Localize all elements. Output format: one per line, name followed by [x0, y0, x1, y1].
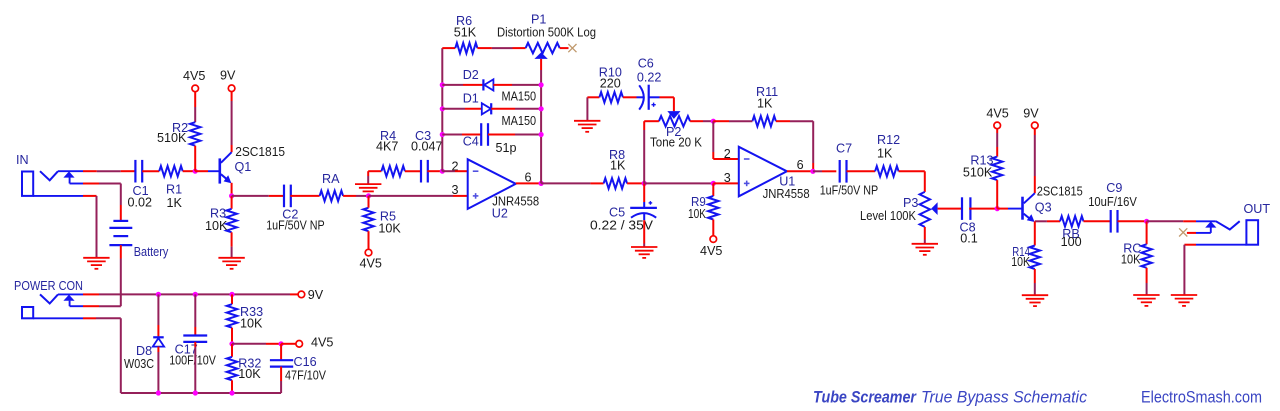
svg-text:4V5: 4V5 [311, 336, 333, 350]
resistor R6 (51K) [454, 14, 478, 53]
wire R2 to node A [194, 146, 196, 172]
capacitor C9 (10uF/16V) [1088, 181, 1137, 233]
svg-text:C16: C16 [294, 355, 317, 369]
resistor R4 (4K7) [376, 129, 405, 176]
wire C16 to bus [280, 367, 282, 393]
svg-text:1uF/50V NP: 1uF/50V NP [820, 184, 879, 198]
resistor RB (100) [1060, 216, 1084, 249]
wire node 4V5 to R32 [231, 344, 233, 357]
ground (C5) [631, 247, 657, 258]
wire P1 right to open end [560, 47, 569, 49]
wire R3 to ground [231, 232, 233, 257]
resistor R8 (1K) [604, 148, 628, 189]
svg-text:220: 220 [600, 77, 621, 91]
wire node B to R3 [231, 196, 233, 209]
svg-text:510K: 510K [157, 131, 187, 145]
svg-text:4V5: 4V5 [700, 244, 722, 258]
wire U2 out to node E [516, 182, 541, 184]
wire node J to Q3 base [997, 208, 1008, 210]
power connector J3 [22, 294, 83, 318]
wire 4V5 to R2 [194, 92, 196, 123]
transistor Q3 (2SC1815) [1008, 185, 1083, 223]
wire node G to R11 [713, 120, 752, 122]
junction node L (C9/RC/out) [1144, 219, 1149, 224]
wire bus to D2 [442, 84, 483, 86]
svg-text:6: 6 [797, 158, 804, 172]
svg-text:C9: C9 [1106, 181, 1122, 195]
wire node D to U2 pin2 [442, 170, 467, 172]
svg-text:C6: C6 [638, 56, 654, 70]
ground (R3) [218, 258, 244, 269]
wire Q3 emitter to RB [1035, 220, 1060, 222]
svg-text:10K: 10K [1121, 253, 1141, 267]
svg-text:510K: 510K [963, 166, 993, 180]
input jack J1 [22, 171, 83, 196]
wire right feedback bus [540, 85, 542, 183]
wire C3 to U2 pin2 node [427, 170, 442, 172]
svg-text:Q3: Q3 [1035, 201, 1052, 215]
svg-text:4V5: 4V5 [360, 257, 382, 271]
junction node J (R13/Q3 base) [995, 206, 1000, 211]
resistor R13 (510K) [963, 154, 1003, 181]
wire 4V5 rail [232, 343, 281, 345]
wire ground bus [121, 392, 281, 394]
junction node G (P2/R11/U1 pin2) [711, 119, 716, 124]
resistor R1 (1K) [159, 166, 183, 210]
svg-text:4V5: 4V5 [986, 107, 1008, 121]
svg-text:True Bypass Schematic: True Bypass Schematic [921, 388, 1088, 406]
svg-text:1K: 1K [877, 147, 893, 161]
wire bus to R6 [442, 47, 455, 49]
op-amp U1 (JNR4558) [739, 147, 810, 201]
wire C6 to P2 wiper [660, 97, 674, 111]
wire node F to U1 pin3 [644, 182, 713, 184]
wire C2 to RA [290, 195, 319, 197]
resistor R3 (10K) [205, 207, 237, 234]
junction bus at C17 [193, 390, 198, 395]
svg-text:Tube Screamer: Tube Screamer [813, 388, 917, 406]
svg-text:3: 3 [724, 171, 731, 185]
wire left feedback bus [441, 48, 443, 171]
wire 9V to D8 [157, 294, 159, 337]
resistor R33 (10K) [227, 304, 263, 330]
wire bus to D1 [442, 108, 482, 110]
wire bus to C4 [442, 134, 481, 136]
resistor RC (10K) [1121, 242, 1152, 268]
net 4V5 terminal (R2 top) [183, 69, 205, 92]
svg-text:IN: IN [16, 153, 29, 167]
wire 9V to Q3 collector [1034, 129, 1036, 194]
wire D1 to bus [491, 108, 541, 110]
title Tube Screamer True Bypass Schematic [813, 388, 1088, 406]
junction node E (U2 output) [539, 181, 544, 186]
wire C9 to node L [1118, 220, 1147, 222]
svg-text:POWER CON: POWER CON [14, 279, 83, 293]
wire node L to RC [1146, 221, 1148, 244]
wire C17 to bus [194, 342, 196, 393]
svg-text:P3: P3 [903, 196, 918, 210]
wire power middle to battery [83, 305, 121, 307]
diode D8 (W03C) [124, 337, 164, 371]
svg-text:Battery: Battery [134, 245, 169, 259]
wire Q1 emitter to node B [231, 183, 233, 196]
potentiometer P2 (Tone 20 K) [650, 111, 703, 149]
wire node E to R8 [541, 182, 604, 184]
junction right bus at D1 [539, 106, 544, 111]
net 4V5 terminal (R5) [360, 249, 382, 270]
wire R10 to C6 [623, 96, 637, 98]
svg-text:9V: 9V [220, 69, 236, 83]
svg-text:9V: 9V [308, 288, 324, 302]
capacitor C1 (0.02) [128, 160, 153, 210]
svg-text:10K: 10K [238, 367, 261, 381]
svg-text:2: 2 [724, 147, 731, 161]
battery BT1 [109, 221, 168, 259]
svg-text:4K7: 4K7 [376, 140, 398, 154]
svg-text:Level 100K: Level 100K [860, 209, 917, 223]
wire node I to C7 [813, 170, 836, 172]
wire node F up to P2 left [643, 121, 645, 183]
ground (P3) [912, 244, 938, 255]
ground (R4 left) [355, 184, 381, 191]
svg-text:D8: D8 [136, 344, 152, 358]
capacitor C17 (100F/10V) [169, 336, 216, 368]
capacitor C6 (0.22, polarized) [637, 56, 662, 109]
credit ElectroSmash.com [1141, 388, 1262, 407]
junction 9V rail at C17 [193, 292, 198, 297]
wire node C to U2 pin3 [369, 195, 468, 197]
svg-text:47F/10V: 47F/10V [285, 369, 327, 383]
no-connect cross (OUT) [1179, 228, 1187, 236]
resistor R10 (220) [599, 66, 623, 103]
resistor R14 (10K) [1011, 245, 1040, 269]
junction node F (R8/C5/P2) [642, 181, 647, 186]
junction 9V rail at D8 [156, 292, 161, 297]
wire R5 to 4V5 [368, 231, 370, 249]
svg-text:51p: 51p [496, 141, 517, 155]
junction bus at D8 [156, 390, 161, 395]
wire D2 to bus [493, 84, 541, 86]
svg-text:51K: 51K [454, 26, 477, 40]
wire R1 to node A [183, 170, 196, 172]
svg-text:Distortion 500K Log: Distortion 500K Log [497, 26, 596, 40]
ground (OUT sleeve) [1171, 295, 1197, 306]
resistor R5 (10K) [363, 208, 401, 236]
resistor RA [320, 172, 344, 201]
potentiometer P1 (Distortion 500K Log) [497, 13, 596, 59]
wire R11 to U1 out [776, 121, 813, 171]
svg-text:10K: 10K [1011, 255, 1030, 269]
wire C16 to 4V5 terminal [281, 343, 296, 345]
wire R4 to C3 [405, 170, 422, 172]
node IN label [16, 153, 29, 167]
capacitor C5 (0.22 / 35V) [590, 201, 657, 232]
svg-text:1K: 1K [757, 97, 773, 111]
wire battery minus down [120, 245, 122, 306]
svg-text:OUT: OUT [1244, 202, 1271, 216]
resistor R11 (1K) [752, 85, 778, 126]
svg-text:0.1: 0.1 [960, 232, 978, 246]
junction node I (U1 output) [810, 169, 815, 174]
ground (R10) [574, 121, 600, 132]
svg-text:P1: P1 [531, 13, 546, 27]
wire 9V to Q1 collector [231, 92, 233, 153]
capacitor C16 (47F/10V) [270, 355, 327, 383]
wire R33 to node 4V5 [231, 328, 233, 344]
svg-text:D1: D1 [463, 92, 479, 106]
svg-text:1uF/50V NP: 1uF/50V NP [266, 219, 325, 233]
junction 9V rail at R33 [229, 292, 234, 297]
svg-text:MA150: MA150 [502, 114, 537, 128]
svg-text:0.047: 0.047 [411, 140, 443, 154]
svg-text:R12: R12 [877, 133, 900, 147]
wire R13 to node J [996, 180, 998, 209]
junction node B (Q1 emitter) [229, 193, 234, 198]
junction left bus at D1 [440, 106, 445, 111]
wire OUT switch to cross [1187, 232, 1196, 234]
wire Q3 emitter down [1034, 221, 1036, 245]
svg-text:1K: 1K [167, 196, 183, 210]
resistor R2 (510K) [157, 121, 200, 146]
svg-text:C4: C4 [463, 135, 479, 149]
svg-text:RA: RA [322, 172, 340, 186]
net 4V5 terminal (R13) [986, 107, 1008, 129]
net 9V terminal (rail) [298, 288, 324, 302]
junction node D (U2 pin2) [440, 169, 445, 174]
wire 4V5 to C16 [280, 344, 282, 360]
wire R10 ground branch [587, 97, 599, 120]
capacitor C7 (1uF/50V NP) [820, 142, 879, 198]
wire P1 wiper to right bus [540, 59, 542, 85]
wire 9V rail [83, 293, 298, 295]
svg-text:0.02: 0.02 [128, 196, 153, 210]
svg-text:0.22: 0.22 [637, 70, 662, 84]
junction node A (Q1 base) [193, 169, 198, 174]
diode D1 (MA150) [463, 92, 536, 128]
wire IN sleeve down [83, 196, 97, 258]
junction left bus at D2 [440, 82, 445, 87]
resistor R12 (1K) [875, 133, 900, 177]
wire node H to U1 pin3 [713, 182, 739, 184]
wire RC to ground [1146, 268, 1148, 295]
net 4V5 terminal (R9) [700, 236, 722, 258]
svg-text:10K: 10K [378, 222, 401, 236]
wire C4 to bus [488, 134, 541, 136]
svg-text:1K: 1K [610, 159, 626, 173]
svg-text:Q1: Q1 [235, 160, 252, 174]
node POWER CON label [14, 279, 83, 293]
wire R9 to 4V5 [712, 220, 714, 236]
svg-text:ElectroSmash.com: ElectroSmash.com [1141, 388, 1262, 407]
svg-text:2SC1815: 2SC1815 [1037, 185, 1083, 199]
junction node H (R9/U1 pin3) [711, 181, 716, 186]
wire C1 to R1 [142, 170, 159, 172]
svg-text:100: 100 [1061, 235, 1082, 249]
junction node K (Q3 emitter) [0, 0, 1, 1]
wire P3 to ground [924, 227, 926, 243]
capacitor C3 (0.047) [411, 129, 443, 183]
svg-text:W03C: W03C [124, 357, 154, 371]
wire power sleeve to bus [83, 318, 121, 393]
junction node 4V5 (R33/R32) [229, 341, 234, 346]
wire C7 to R12 [847, 170, 876, 172]
wire node F down to C5 [643, 183, 645, 202]
resistor R9 (10K) [688, 195, 719, 221]
svg-text:MA150: MA150 [502, 89, 537, 103]
ground (R14) [1022, 295, 1048, 306]
svg-text:4V5: 4V5 [183, 69, 205, 83]
wire OUT sleeve to ground [1184, 245, 1196, 295]
capacitor C8 (0.1) [960, 197, 978, 245]
wire RA to node C [343, 195, 368, 197]
wire R6 to P1 [477, 47, 525, 49]
junction bus at R32 [229, 390, 234, 395]
junction right bus at D2 [539, 82, 544, 87]
net 4V5 terminal (rail) [296, 336, 334, 350]
resistor R32 (10K) [227, 357, 262, 382]
wire R12 to P3 [899, 171, 925, 192]
svg-text:10K: 10K [688, 207, 706, 221]
output jack J2 [1196, 202, 1270, 245]
wire P3 wiper to C8 [938, 208, 962, 210]
ground (IN sleeve) [83, 258, 109, 269]
capacitor C2 (1uF/50V NP) [266, 185, 325, 233]
svg-text:C7: C7 [836, 142, 852, 156]
wire IN tip to C1 [83, 170, 136, 172]
wire node G down to U1 pin2 [713, 121, 739, 159]
wire P2 right to node G [690, 120, 713, 122]
wire node A to Q1 base [195, 170, 208, 172]
svg-text:10uF/16V: 10uF/16V [1088, 195, 1137, 209]
wire R8 to node F [627, 182, 644, 184]
svg-text:10K: 10K [205, 219, 228, 233]
wire node B to C2 [232, 195, 285, 197]
svg-text:U2: U2 [492, 207, 508, 221]
capacitor C4 (51p) [463, 123, 517, 155]
no-connect cross (P1) [568, 44, 576, 52]
wire node L to OUT jack [1147, 220, 1196, 222]
wire 4V5 to R13 [996, 129, 998, 157]
wire R32 to bus [231, 380, 233, 393]
wire R4 left to ground [368, 171, 381, 184]
svg-text:C5: C5 [609, 206, 625, 220]
svg-text:JNR4558: JNR4558 [763, 187, 810, 201]
wire D8 to bus [157, 347, 159, 393]
wire C8 to node J [969, 208, 997, 210]
diode D2 (MA150) [463, 68, 536, 103]
junction 4V5 rail at C16 [279, 341, 284, 346]
net 9V terminal (Q1 collector) [220, 69, 236, 92]
svg-text:10K: 10K [240, 317, 263, 331]
wire node H to R9 [712, 183, 714, 196]
wire P2 left to node F col [644, 120, 659, 122]
ground (RC) [1133, 295, 1159, 306]
wire node C to R5 [368, 196, 370, 208]
net 9V terminal (Q3 collector) [1023, 106, 1039, 128]
svg-text:2SC1815: 2SC1815 [235, 145, 285, 159]
junction left bus at C4 [440, 132, 445, 137]
wire IN ring to battery [83, 184, 121, 221]
junction right bus at C4 [539, 132, 544, 137]
wire 9V to R33 [231, 294, 233, 304]
wire C5 to ground [643, 220, 645, 246]
svg-text:9V: 9V [1023, 106, 1039, 120]
svg-text:R1: R1 [166, 183, 182, 197]
junction node C (U2 pin3 net) [366, 193, 371, 198]
wire U1 out to node I [787, 170, 813, 172]
wire RB to C9 [1084, 220, 1111, 222]
wire R14 to ground [1034, 269, 1036, 295]
op-amp U2 (JNR4558) [468, 159, 540, 220]
svg-text:Tone 20 K: Tone 20 K [650, 136, 703, 150]
svg-text:D2: D2 [463, 68, 479, 82]
svg-text:100F/10V: 100F/10V [169, 354, 216, 368]
wire 9V to C17 [194, 294, 196, 335]
potentiometer P3 (Level 100K) [860, 192, 938, 227]
transistor Q1 (2SC1815) [208, 145, 285, 184]
